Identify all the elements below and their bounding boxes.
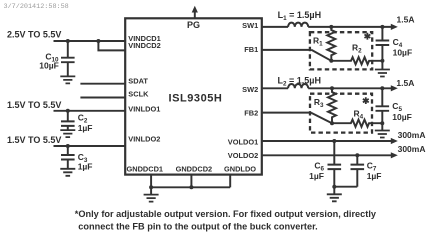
svg-text:1.5A: 1.5A <box>396 78 414 88</box>
node junction gnd bus 2 <box>189 185 193 189</box>
node junction R4/C5 <box>380 121 384 125</box>
output arrow 300mA (LDO1) <box>391 138 398 144</box>
inductor L2 <box>288 84 308 88</box>
node junction SW1/R1 <box>329 25 333 29</box>
wire branch to VINDCD2 <box>98 41 125 50</box>
wire VOLDO1 output <box>262 140 392 142</box>
svg-text:1.5V TO 5.5V: 1.5V TO 5.5V <box>7 135 61 145</box>
svg-text:connect the FB pin to the outp: connect the FB pin to the output of the … <box>78 222 317 232</box>
asterisk (box 1) <box>364 33 370 40</box>
ground under C4 <box>381 61 383 70</box>
svg-text:VINDCD2: VINDCD2 <box>128 41 160 50</box>
capacitor C5 <box>381 88 383 106</box>
resistor R3 <box>328 88 336 123</box>
wire SDAT stub <box>80 83 125 85</box>
wire VIN to VINDCD1 <box>54 40 126 42</box>
wire SW1 to L1 <box>262 26 288 28</box>
resistor R1 <box>327 27 335 61</box>
svg-text:300mA: 300mA <box>398 144 426 154</box>
node junction VINLDO1/C2 <box>66 109 70 113</box>
wire GNDLDO stub <box>229 175 231 188</box>
output arrow 1.5A (buck1) <box>391 24 398 30</box>
PG output arrow <box>194 12 196 18</box>
svg-text:1µF: 1µF <box>78 161 93 171</box>
node junction C6/C7 ground <box>332 185 336 189</box>
resistor R4 <box>332 120 382 127</box>
node junction R1/R2 <box>329 59 333 63</box>
svg-text:L1 = 1.5µH: L1 = 1.5µH <box>278 10 321 22</box>
wire FB1 diagonal <box>312 50 332 61</box>
ground under C6/C7 <box>333 187 335 195</box>
capacitor C7 <box>356 155 358 164</box>
wire ground bus <box>151 186 230 188</box>
svg-text:10µF: 10µF <box>393 47 413 57</box>
capacitor C3 <box>67 146 69 155</box>
wire VINLDO2 <box>54 145 126 147</box>
svg-text:FB2: FB2 <box>244 109 258 118</box>
wire GNDDCD2 stub <box>190 175 192 188</box>
node junction R2/C4 <box>380 59 384 63</box>
wire VINLDO1 <box>54 110 126 112</box>
inductor L1 <box>288 23 308 27</box>
ground under C10 <box>60 76 75 83</box>
node junction VOLDO2/C7 <box>355 153 359 157</box>
output arrow 1.5A (buck2) <box>391 85 398 91</box>
svg-text:VINLDO2: VINLDO2 <box>128 135 160 144</box>
node junction VIN/C10 <box>66 39 70 43</box>
wire L1 to output <box>308 26 392 28</box>
output arrow 300mA (LDO2) <box>391 152 398 158</box>
wire GNDDCD1 stub <box>150 175 152 188</box>
node junction SW1/C4 <box>380 25 384 29</box>
svg-text:R2: R2 <box>352 42 362 54</box>
svg-text:1µF: 1µF <box>78 123 93 133</box>
svg-text:R1: R1 <box>313 35 323 47</box>
wire FB1 <box>262 49 312 51</box>
node junction VIN/VINDCD2 branch <box>96 39 100 43</box>
IC U1 ISL9305H body <box>125 18 262 174</box>
svg-text:L2 = 1.5µH: L2 = 1.5µH <box>278 76 321 88</box>
capacitor C10 <box>67 41 69 58</box>
node junction R3/R4 <box>330 121 334 125</box>
svg-text:1.5V TO 5.5V: 1.5V TO 5.5V <box>7 100 61 110</box>
wire C7 to C6 bottom <box>334 186 357 188</box>
ground under C5 <box>381 123 383 130</box>
svg-text:VINLDO1: VINLDO1 <box>128 104 160 113</box>
node junction VOLDO1/C6 <box>332 139 336 143</box>
svg-text:GNDLDO: GNDLDO <box>224 165 256 174</box>
svg-text:VOLDO1: VOLDO1 <box>228 137 258 146</box>
capacitor C4 <box>381 27 383 41</box>
asterisk (box 2) <box>363 97 369 104</box>
ground under C2 <box>60 130 75 137</box>
svg-text:FB1: FB1 <box>244 45 258 54</box>
svg-text:SDAT: SDAT <box>128 77 148 86</box>
wire SCLK stub <box>80 97 125 99</box>
svg-text:300mA: 300mA <box>398 130 426 140</box>
svg-text:10µF: 10µF <box>39 60 59 70</box>
dashed box (adjustable divider 2) <box>310 94 372 133</box>
svg-text:VOLDO2: VOLDO2 <box>228 151 258 160</box>
ground symbol (IC) <box>150 187 152 194</box>
svg-text:SW2: SW2 <box>242 85 258 94</box>
svg-text:3/7/201412:58:58: 3/7/201412:58:58 <box>4 3 69 11</box>
wire SW2 to L2 <box>262 87 288 89</box>
wire VOLDO2 output <box>262 154 392 156</box>
svg-text:GNDDCD2: GNDDCD2 <box>176 165 213 174</box>
svg-text:1µF: 1µF <box>309 171 324 181</box>
svg-text:ISL9305H: ISL9305H <box>169 93 223 105</box>
node junction gnd bus 1 <box>149 185 153 189</box>
ground under C3 <box>60 169 75 176</box>
svg-text:10µF: 10µF <box>392 112 412 122</box>
node junction SW2/R3 <box>330 86 334 90</box>
svg-text:PG: PG <box>187 20 200 30</box>
svg-text:SW1: SW1 <box>242 21 258 30</box>
wire FB2 diagonal <box>311 113 332 124</box>
wire L2 to output <box>308 87 392 89</box>
node junction VINLDO2/C3 <box>66 144 70 148</box>
svg-text:SCLK: SCLK <box>128 90 149 99</box>
dashed box (adjustable divider 1) <box>310 32 372 69</box>
capacitor C6 <box>333 141 335 165</box>
node junction SW2/C5 <box>380 86 384 90</box>
svg-text:1.5A: 1.5A <box>397 15 415 25</box>
capacitor C2 <box>67 111 69 122</box>
resistor R2 <box>331 57 382 64</box>
svg-text:GNDDCD1: GNDDCD1 <box>127 165 164 174</box>
svg-text:1µF: 1µF <box>367 171 382 181</box>
svg-text:R3: R3 <box>314 97 324 109</box>
svg-text:*Only for adjustable output ve: *Only for adjustable output version. For… <box>75 209 377 219</box>
svg-text:2.5V TO 5.5V: 2.5V TO 5.5V <box>7 29 61 39</box>
wire FB2 <box>262 112 311 114</box>
